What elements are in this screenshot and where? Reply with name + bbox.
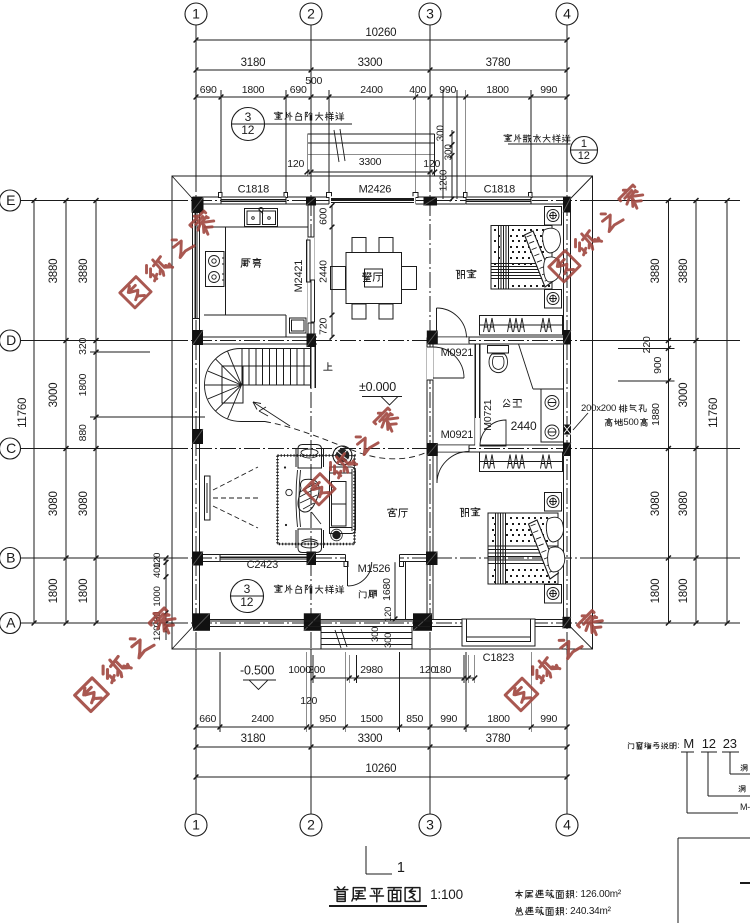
axis bubble C left [0,438,21,459]
note exterior steps detail text [274,112,282,119]
bed 1 plaid band [491,263,552,265]
svg-text:180: 180 [434,664,451,676]
legend door window code text [628,743,634,749]
svg-text:12: 12 [578,150,590,162]
left dim line inner [95,201,97,624]
sofa armchair top [298,445,322,469]
column axis2/D [307,334,317,348]
svg-text:3880: 3880 [48,259,60,284]
watermark at 554,657 [505,678,538,711]
bed 1 pillow top [543,228,561,253]
stair inner well [222,366,243,403]
door M1526 opening on B wall [345,554,399,562]
left dim line total 11760 [33,201,35,624]
plant pot [333,446,352,465]
axis bubble E left [0,190,21,211]
dim extension line bottom porch [348,655,350,683]
label 餐厅 [363,273,372,282]
svg-text:: 126.00m²: : 126.00m² [575,889,622,900]
svg-text:220: 220 [641,336,653,353]
door bedroom2 M0921 opening on C wall [436,445,469,451]
svg-text:1800: 1800 [678,579,690,604]
callout 3/12 porch steps [231,580,264,613]
bed 2 vertical stripes [495,513,497,584]
sofa armchair bottom [298,529,322,553]
column axis4/C [563,443,571,457]
svg-text:300: 300 [444,144,455,161]
svg-text:C1818: C1818 [238,184,269,196]
axis bubble 4 bottom [556,814,578,836]
svg-text:990: 990 [440,713,457,725]
column axis3/D [427,331,438,345]
svg-text:3300: 3300 [358,57,383,69]
column axis1/E [192,197,204,213]
column axis3/E [424,197,438,206]
right dim line mid [695,201,697,624]
callout 1/12 apron detail [571,137,598,164]
bed 1 vertical stripes [498,226,500,290]
window C1818 left top wall [221,196,286,205]
svg-text:660: 660 [199,713,216,725]
svg-text:D: D [6,332,16,348]
exterior wall left (axis1) [192,197,194,627]
stair up arrow [253,402,290,426]
stair radial treads [228,351,242,385]
chair right [402,267,417,290]
door M1526 leaf and arc [347,562,349,586]
svg-text:1: 1 [192,6,200,22]
svg-text:10260: 10260 [365,763,396,775]
axis line A horizontal [21,622,172,624]
svg-text:M0921: M0921 [441,347,474,359]
door bedroom2 leaf and arc [436,452,438,484]
interior wall C axis bed2 [433,444,563,446]
stair right wall segment [310,344,312,389]
porch dim 1680 [394,558,396,619]
bed 1 quilt fold diagonal [525,231,554,287]
svg-text:600: 600 [318,208,330,225]
door hall leaf and arc [433,346,464,348]
svg-text:1680: 1680 [381,578,393,601]
svg-text:3000: 3000 [678,383,690,408]
svg-text:1800: 1800 [48,579,60,604]
interior wall B axis living bottom [192,554,433,556]
left extension line 1800 [90,416,205,418]
svg-text:M2426: M2426 [359,184,392,196]
porch step dims 300 300 120 [370,627,381,642]
interior wall D axis right part [427,336,563,338]
svg-text:C1818: C1818 [484,184,515,196]
svg-text:12: 12 [241,123,254,137]
column axis2/B [307,552,317,566]
label 厨房 [241,259,250,268]
column axis2/E [306,197,316,206]
svg-text:10260: 10260 [365,27,396,39]
svg-text:300: 300 [436,125,447,142]
bottom dim row splits [196,726,567,728]
svg-text:950: 950 [319,713,336,725]
svg-text:-0.500: -0.500 [240,664,274,678]
svg-text:3180: 3180 [241,57,266,69]
svg-text:3300: 3300 [359,156,382,168]
bed 1 mattress dots [494,229,496,231]
note porch steps text [274,585,282,592]
svg-text:E: E [6,192,15,208]
entrance steps top [308,133,435,135]
svg-text:2440: 2440 [318,260,330,283]
dim chain 300 300 1200 [451,130,453,199]
svg-text:990: 990 [540,84,557,96]
left dim line mid [65,201,67,624]
nightstand 1a [545,207,562,226]
axis bubble B left [0,548,21,569]
svg-text:3: 3 [245,110,252,124]
svg-text:C: C [6,440,16,456]
svg-text:3080: 3080 [78,491,90,516]
interior wall D axis kitchen/stair [200,336,317,338]
kitchen fridge [290,318,307,333]
top dim row 3180/3300/3780 [196,69,567,71]
label 卧室 bottom [460,508,468,517]
svg-text:1: 1 [397,860,405,876]
window C1818 right top wall [466,196,531,205]
window jamb stubs top wall [219,193,223,198]
svg-text:12: 12 [702,736,716,751]
exterior wall right (axis4) [563,197,565,627]
watermark at 125,656 [75,678,109,712]
porch interior line [405,562,407,620]
column axis4/D [563,330,571,345]
svg-text:11760: 11760 [17,398,29,428]
column axis3/C [427,443,438,456]
dim extension line bottom [344,652,346,732]
axis bubble 2 top [300,3,322,25]
vent hole mark [563,425,571,435]
tv rays dashed [213,467,258,490]
dim extension line bottom porch [463,655,465,683]
axis line 3 vertical [429,25,431,176]
axis line E horizontal [21,200,172,202]
svg-text:3: 3 [426,6,434,22]
label M0721 [482,399,494,430]
axis bubble D left [0,330,21,351]
svg-text:400: 400 [152,563,163,578]
axis bubble 1 top [185,3,207,25]
stair treads straight [241,349,243,386]
dim extension line [328,90,330,197]
dim extension line [220,90,222,197]
svg-text:990: 990 [540,713,557,725]
overhang corner diagonal BR [571,627,593,649]
legend leader 12 [707,752,709,796]
dim extension line bottom porch [312,655,314,683]
axis line 2 vertical [310,25,312,176]
watermark at 596,230 [549,251,580,282]
svg-text:500: 500 [305,75,322,87]
bed 2 quilt fold diagonal [529,520,559,579]
label M2421 [293,260,305,293]
bed 2 outline [488,513,558,584]
column axis1/C [193,429,204,444]
label 公卫 [504,399,511,407]
column axis1/D [193,330,204,345]
svg-text:1:100: 1:100 [430,887,463,902]
svg-text:3780: 3780 [486,733,511,745]
svg-text:1200: 1200 [439,169,450,191]
axis bubble 4 top [556,3,578,25]
dim extension line bottom [399,652,401,732]
kitchen sink [245,209,278,227]
overhang corner diagonal TR [571,176,593,199]
column axis4/A [563,617,572,629]
sofa rug fuzzy border [278,456,355,545]
svg-text:1800: 1800 [242,84,265,96]
svg-text:C1823: C1823 [483,652,514,664]
column axis3/B [426,552,438,566]
sofa dark cushion [332,531,340,539]
chair bottom left [352,304,366,319]
axis bubble A left [0,613,21,634]
tv cabinet [205,476,211,520]
svg-text:200x200: 200x200 [581,403,616,414]
svg-text:120: 120 [300,695,317,707]
svg-text:A: A [6,615,16,631]
door M2421 kitchen sliding opening [308,237,314,323]
svg-text:M0721: M0721 [482,399,494,430]
svg-text:300: 300 [383,633,394,648]
dining table [346,253,402,304]
svg-text:2: 2 [307,6,315,22]
window C1823 bay bottom [462,619,535,627]
svg-text:1500: 1500 [360,713,383,725]
svg-text:500: 500 [623,417,638,428]
dim extension line bottom porch [474,655,476,683]
porch left dim chain [165,558,167,640]
dim extension line bottom [306,652,308,732]
svg-text:12: 12 [240,595,253,609]
wardrobe2 hangers [484,455,489,469]
svg-text:300: 300 [370,627,381,642]
svg-text:720: 720 [318,318,330,335]
area notes [515,890,523,898]
svg-text:M2421: M2421 [293,260,305,293]
svg-text:M: M [683,736,694,751]
vanity [541,389,564,442]
legend box [677,838,679,923]
axis line 1 vertical [195,25,197,176]
wardrobe bedroom2 [480,452,563,472]
axis bubble 2 bottom [300,814,322,836]
label 门廊 [359,591,366,599]
dim extension line bottom [465,652,467,732]
left extension line 320 [90,351,150,353]
svg-text:850: 850 [406,713,423,725]
svg-text:3300: 3300 [358,733,383,745]
callout 3/12 exterior steps detail [232,108,265,141]
sofa diag line [312,512,322,524]
svg-text:1: 1 [192,817,200,833]
nightstand 1b [545,290,562,309]
window C2423 on B wall [220,554,307,563]
exterior wall bottom (A axis) [192,619,570,621]
sofa chaise cushion [298,479,319,512]
shower corner [519,344,534,389]
svg-text:4: 4 [563,817,571,833]
svg-text:3: 3 [244,582,251,596]
dim extension line bottom porch [467,655,469,683]
watermark at 167,256 [120,277,151,308]
svg-text:4: 4 [563,6,571,22]
bed 2 mattress dots [492,517,494,519]
title 首层平面图 [334,887,347,902]
svg-text:23: 23 [723,736,737,751]
svg-text:3080: 3080 [48,491,60,516]
svg-text:3000: 3000 [48,383,60,408]
interior wall axis3 vertical [426,338,428,620]
column axis1/B [193,552,204,566]
stair dashed flow line [265,422,431,459]
dim extension line bottom [530,652,532,732]
window west kitchen wall [192,213,201,319]
bed 1 pillow bottom [544,257,561,282]
svg-text:120: 120 [287,158,304,170]
kitchen interior dims 600/2440/720 [331,205,333,337]
axis line D horizontal [21,340,172,342]
axis line 4 vertical [566,25,568,176]
svg-text:3: 3 [426,817,434,833]
door bedroom1 leaf and arc [436,308,438,338]
svg-text:2980: 2980 [360,664,383,676]
svg-text:120: 120 [423,158,440,170]
toilet [488,346,509,354]
door M1526 jamb stubs [344,562,348,567]
axis bubble 3 top [419,3,441,25]
kitchen stove [206,252,225,287]
svg-text:3880: 3880 [678,259,690,284]
chair bottom right [379,304,393,319]
stair outline [205,349,312,422]
dim extension line bottom porch [355,655,357,683]
dim extension line [465,90,467,197]
nightstand 2b [545,585,562,604]
column axis4/E [563,197,571,213]
svg-text:690: 690 [200,84,217,96]
wardrobe1 hangers [484,318,489,332]
top dim row total 10260 [196,39,567,41]
bottom dim row porch steps [313,677,475,679]
axis line B horizontal [21,557,172,559]
svg-text:B: B [6,550,15,566]
svg-text:200: 200 [308,664,325,676]
bed 2 pillow bottom [548,547,565,572]
svg-text:900: 900 [652,357,664,374]
dim extension line [415,90,417,197]
svg-text:1800: 1800 [486,84,509,96]
axis bubble 3 bottom [419,814,441,836]
stair flight edges [241,384,311,386]
svg-text:1800: 1800 [650,579,662,604]
dim extension line [530,90,532,197]
right extension 900 [618,380,674,382]
column axis1/A porch [193,613,210,631]
svg-text:2400: 2400 [360,84,383,96]
column axis2/A porch [304,613,321,631]
svg-text:M0921: M0921 [441,429,474,441]
chair top right [379,238,393,253]
svg-text:3880: 3880 [650,259,662,284]
svg-text:2440: 2440 [511,419,537,433]
axis bubble 1 bottom [185,814,207,836]
svg-text:2: 2 [307,817,315,833]
svg-text:320: 320 [77,338,89,355]
porch steps bottom [321,632,412,634]
bed 1 outline [491,226,552,290]
dim extension line [285,90,287,197]
bottom dim row total 10260 [196,776,567,778]
svg-text:3080: 3080 [678,491,690,516]
nightstand 2a [545,493,562,512]
svg-text:11760: 11760 [708,398,720,428]
note apron detail text [504,134,512,141]
svg-text:3880: 3880 [78,259,90,284]
watermark at 351,453 [304,474,335,505]
svg-text:400: 400 [409,84,426,96]
svg-text:1800: 1800 [78,579,90,604]
door M2426 opening [329,196,416,204]
rug dots [284,466,286,468]
svg-text:1: 1 [581,138,587,150]
overhang corner diagonal TL [172,176,192,199]
svg-text:M-: M- [740,802,750,812]
svg-text:: 240.34m²: : 240.34m² [565,906,612,917]
bed 2 plaid band [488,545,558,547]
legend leader M [686,752,688,813]
svg-text:3780: 3780 [486,57,511,69]
sofa back curves left [296,470,298,527]
column axis3/A porch [413,613,432,631]
bottom dim row 3180/3300/3780 [196,746,567,748]
svg-text:3180: 3180 [241,733,266,745]
label 客厅 [388,508,397,516]
top dim row window splits [196,96,567,98]
right dim line total 11760 [726,201,728,624]
svg-text:1800: 1800 [487,713,510,725]
door hall M0921 opening on axis3 [427,347,433,380]
svg-text:3080: 3080 [650,491,662,516]
door bathroom M0721 opening [475,418,480,446]
section mark near title [365,846,367,874]
svg-text:±0.000: ±0.000 [359,380,396,394]
svg-text:1800: 1800 [77,373,89,396]
interior wall kitchen/dining (x~311) [307,204,309,344]
svg-text:2400: 2400 [251,713,274,725]
dim row 120 3300 120 [307,171,435,173]
legend leader 23 [729,752,731,774]
overhang corner diagonal BL [172,627,192,649]
side table [286,489,292,495]
svg-text:1880: 1880 [650,403,662,426]
svg-text:990: 990 [439,84,456,96]
svg-text::: : [677,741,679,750]
svg-text:C2423: C2423 [247,559,278,571]
roof overhang outline [172,176,593,649]
porch front edge [210,620,430,622]
door bedroom1 M0921 opening on D wall [436,337,469,343]
right extension 220 [618,347,674,349]
right dim line inner [667,201,669,624]
kitchen counter edges [204,226,308,228]
label 卧室 top [456,270,464,279]
